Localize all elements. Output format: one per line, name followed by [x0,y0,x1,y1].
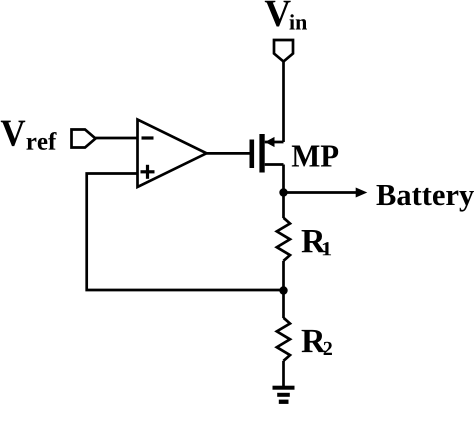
op-amp U1 body [138,120,207,188]
transistor MP channel bar [259,134,264,173]
op-amp plus sign [141,165,155,179]
resistor R1 [277,218,290,261]
arrowhead battery [356,188,368,198]
transistor MP gate bar [250,140,255,169]
label Battery [377,185,474,212]
label MP [292,146,338,167]
wire MP drain to R1 [282,165,285,219]
wire R1 to R2 [282,261,285,318]
port symbol Vin [274,40,293,62]
transistor MP drain stub [265,163,284,166]
node battery junction [279,188,287,196]
wire Vin to MP source [282,62,285,143]
wire battery arrow [284,191,357,194]
wire Vref to op-amp inverting input [96,137,138,140]
net label Vin [265,1,307,30]
wire R2 to ground [282,361,285,386]
wire feedback to op-amp non-inverting input [87,174,284,291]
node feedback junction [279,286,287,294]
port symbol Vref [72,130,96,148]
net label Vref [1,121,57,150]
wire op-amp output to MP gate [207,152,250,155]
transistor MP source stub [265,141,284,144]
ground [273,386,295,404]
resistor R2 [277,318,290,361]
label R2 [302,330,332,355]
label R1 [302,230,331,255]
op-amp minus sign [142,136,154,139]
transistor MP source arrow [265,137,275,147]
